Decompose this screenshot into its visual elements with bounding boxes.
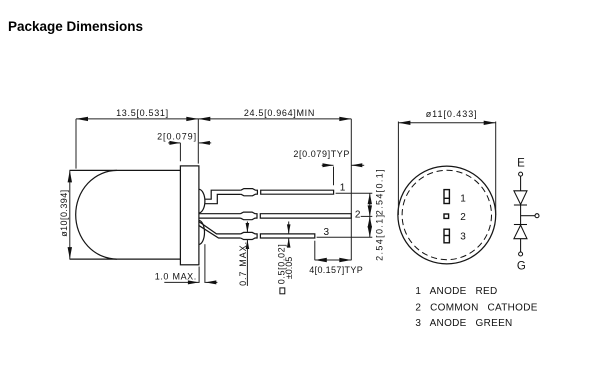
epoxy bump lower bbox=[199, 220, 205, 244]
epoxy bump upper bbox=[199, 189, 205, 213]
svg-text:24.5[0.964]MIN: 24.5[0.964]MIN bbox=[244, 108, 315, 118]
dimension 4[0.157] line bbox=[315, 259, 352, 261]
pin 2 pad front view bbox=[444, 214, 449, 218]
svg-text:1.0 MAX.: 1.0 MAX. bbox=[155, 271, 197, 281]
extension line lead3 bbox=[317, 236, 373, 238]
arrow 0.5 down-pointing bbox=[287, 224, 291, 234]
arrow 4[0.157] right end bbox=[339, 258, 351, 262]
arrow dia10 down bbox=[68, 247, 72, 259]
arrow 2.54 mid pair bbox=[368, 205, 372, 216]
extension flange face lower bbox=[198, 267, 200, 283]
svg-text:0.7 MAX.: 0.7 MAX. bbox=[238, 242, 248, 286]
wire D2 to G bbox=[520, 239, 522, 252]
dimension 2[0.079]TYP left arrow line bbox=[322, 164, 334, 166]
arrow 0.5 up-pointing bbox=[287, 238, 291, 248]
dimension 0.7 upper arrow line bbox=[246, 222, 248, 233]
arrow 4[0.157] left end bbox=[315, 258, 327, 262]
extension line lead2 bbox=[361, 215, 373, 217]
dimension 0.5 lower arrow line bbox=[288, 238, 290, 245]
svg-text:3 ANODE GREEN: 3 ANODE GREEN bbox=[415, 318, 512, 329]
arrow 0.7 down-pointing bbox=[246, 223, 250, 233]
svg-text:2: 2 bbox=[355, 210, 361, 221]
wire junction to common terminal bbox=[521, 215, 535, 217]
dimension 13.5/24.5 line bbox=[76, 118, 351, 120]
arrow dia10 up bbox=[68, 170, 72, 182]
arrow 2TYP left-pointing bbox=[351, 163, 362, 167]
dimension 2[0.079]TYP right arrow line bbox=[351, 164, 364, 166]
dimension 1.0 MAX right arrow line bbox=[205, 281, 217, 283]
svg-text:1: 1 bbox=[460, 194, 466, 205]
reference line lead ends bbox=[350, 119, 352, 260]
front view outer circle bbox=[398, 166, 496, 264]
pin 3 pad front view bbox=[444, 229, 449, 243]
svg-text:1: 1 bbox=[340, 183, 346, 194]
arrow 2TYP right-pointing bbox=[323, 163, 334, 167]
LED body bottom outline bbox=[70, 258, 181, 260]
svg-text:G: G bbox=[517, 260, 526, 272]
dimension 0.5 upper arrow line bbox=[288, 222, 290, 234]
svg-text:3: 3 bbox=[324, 227, 330, 238]
dimension 2[0.079] flange left extension bbox=[179, 143, 181, 161]
svg-text:4[0.157]TYP: 4[0.157]TYP bbox=[309, 265, 363, 275]
LED flange bbox=[180, 166, 199, 265]
dimension 0.7 line lower bbox=[246, 240, 248, 286]
dimension 2.54 line bbox=[369, 193, 371, 237]
lead 2 segment after break bbox=[260, 214, 351, 218]
extension lead3 end down bbox=[314, 241, 316, 261]
svg-text:2.54[0.1]: 2.54[0.1] bbox=[375, 169, 385, 215]
arrow 0.7 up-pointing bbox=[246, 240, 250, 250]
lead 2 (common cathode) first segment bbox=[199, 213, 241, 215]
lead 1 (anode red) stub and bend bbox=[205, 190, 241, 199]
svg-text:2.54[0.1]: 2.54[0.1] bbox=[375, 215, 385, 261]
svg-text:2 COMMON CATHODE: 2 COMMON CATHODE bbox=[415, 302, 537, 313]
lead 2 crimp bbox=[241, 212, 258, 220]
arrow dia11 left bbox=[398, 121, 410, 125]
dia11 dimension line bbox=[398, 122, 495, 124]
svg-text:ø10[0.394]: ø10[0.394] bbox=[59, 190, 69, 237]
arrow 13.5 right / 24.5 left pair bbox=[186, 117, 198, 121]
dimension 1.0 MAX line bbox=[164, 281, 199, 283]
svg-text:E: E bbox=[517, 158, 525, 170]
svg-text:2[0.079]TYP: 2[0.079]TYP bbox=[293, 149, 349, 159]
dia11 right extension bbox=[495, 122, 497, 216]
lead 3 crimp bbox=[241, 232, 258, 239]
dimension 2[0.079] flange right arrow line bbox=[199, 142, 211, 144]
arrow 13.5 left bbox=[76, 117, 88, 121]
extension bump tip bbox=[204, 244, 206, 283]
arrow 2.54 top up bbox=[368, 193, 372, 204]
dia10 dimension line bbox=[69, 170, 71, 259]
wire E to diode D1 bbox=[520, 176, 522, 191]
extension line flange face upper bbox=[197, 119, 199, 164]
common cathode terminal circle bbox=[535, 214, 539, 218]
front view dashed circle bbox=[402, 170, 491, 259]
LED body top outline bbox=[70, 169, 181, 171]
diode D2 cathode bar bbox=[514, 224, 527, 226]
diode D2 (green) triangle bbox=[514, 225, 527, 239]
arrow 1.0 right-pointing bbox=[188, 280, 199, 284]
diode D1 cathode bar bbox=[514, 204, 527, 206]
svg-text:2: 2 bbox=[460, 212, 466, 223]
arrow 2[0.079] right-pointing bbox=[169, 141, 180, 145]
extension lead1 end bbox=[333, 167, 335, 186]
diode D1 (red) triangle bbox=[514, 191, 527, 205]
arrow 1.0 left-pointing bbox=[205, 280, 216, 284]
LED dome arc bbox=[76, 170, 117, 259]
lead 3 segment after break bbox=[260, 234, 314, 238]
arrow 2[0.079] left-pointing bbox=[199, 141, 210, 145]
dia11 left extension bbox=[397, 122, 399, 216]
svg-text:±0.05: ±0.05 bbox=[284, 257, 294, 279]
arrow 24.5 right bbox=[339, 117, 351, 121]
terminal E circle bbox=[519, 172, 523, 176]
dimension 2[0.079] flange left arrow line bbox=[168, 142, 180, 144]
svg-text:2[0.079]: 2[0.079] bbox=[157, 132, 196, 142]
extension line lead1 bbox=[336, 192, 373, 194]
svg-text:13.5[0.531]: 13.5[0.531] bbox=[116, 108, 168, 118]
arrow 2.54 bottom down bbox=[368, 226, 372, 237]
pin 1 pad front view bbox=[444, 190, 449, 204]
svg-text:Package Dimensions: Package Dimensions bbox=[8, 19, 143, 34]
lead 3 (anode green) diagonal exit bbox=[199, 221, 241, 234]
svg-text:ø11[0.433]: ø11[0.433] bbox=[426, 109, 477, 119]
square symbol for 0.5 dimension bbox=[280, 288, 285, 294]
svg-text:3: 3 bbox=[460, 232, 466, 243]
arrow dia11 right bbox=[484, 121, 496, 125]
lead 1 crimp bbox=[241, 189, 258, 196]
svg-text:1 ANODE RED: 1 ANODE RED bbox=[415, 286, 497, 297]
extension line dome tip bbox=[75, 119, 77, 169]
wire D1 to D2 through junction bbox=[520, 205, 522, 225]
terminal G circle bbox=[519, 252, 523, 256]
lead 1 segment after break bbox=[261, 190, 334, 194]
